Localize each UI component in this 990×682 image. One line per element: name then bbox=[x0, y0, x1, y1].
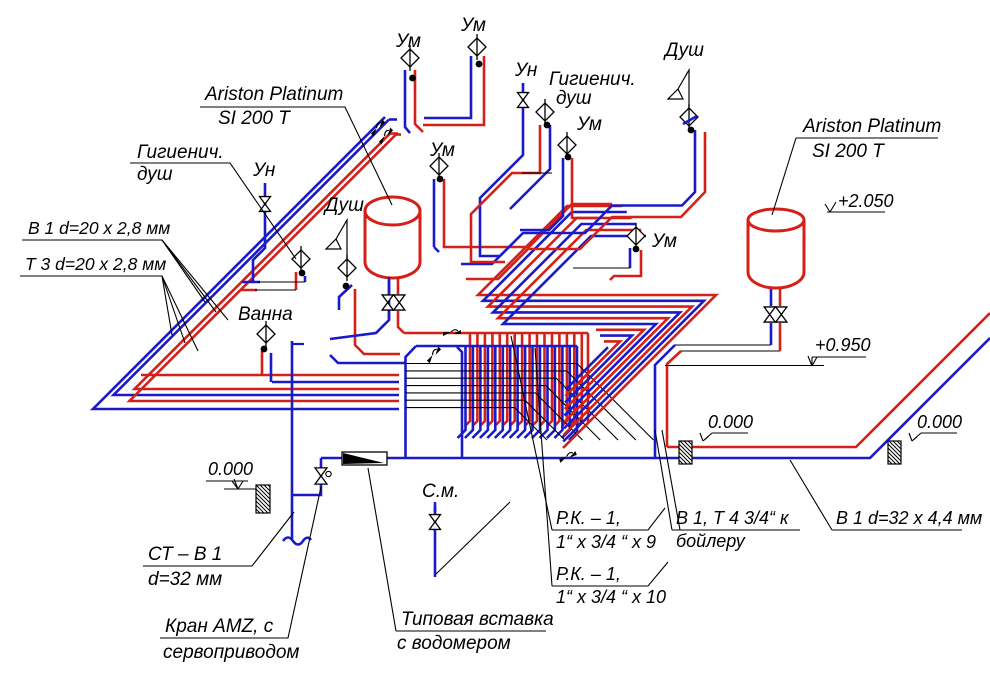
hatch wall right bbox=[888, 441, 901, 464]
boiler 2 double valve bbox=[764, 307, 775, 322]
svg-text:Ум: Ум bbox=[576, 114, 602, 135]
bath Vanna cold drop bbox=[270, 353, 273, 382]
hygienic shower 2 hot bbox=[471, 125, 540, 262]
svg-text:0.000: 0.000 bbox=[208, 459, 253, 479]
bundle cold line B2 bbox=[114, 120, 400, 396]
boiler 1 outlet pipes bbox=[388, 277, 391, 294]
right riser pair to boiler 2 bbox=[655, 345, 675, 458]
left shower hot pipe bbox=[355, 289, 400, 354]
distribution fan Z-runs to fixtures bbox=[478, 206, 716, 448]
urinal Un1 pipe bbox=[253, 183, 265, 283]
svg-text:+0.950: +0.950 bbox=[815, 335, 871, 355]
boiler 2 Ariston cylinder bbox=[748, 209, 804, 288]
zigzag cold connector bbox=[330, 355, 405, 363]
svg-text:d=32 мм: d=32 мм bbox=[148, 569, 222, 590]
svg-text:Гигиенич.: Гигиенич. bbox=[549, 69, 636, 90]
svg-text:СТ – В 1: СТ – В 1 bbox=[148, 544, 222, 565]
washbasin Um2 hot horizontal and riser bbox=[423, 56, 484, 125]
cold manifold riser 2 bbox=[457, 347, 462, 458]
hot manifold header bbox=[404, 332, 588, 335]
svg-text:Душ: Душ bbox=[663, 40, 704, 61]
urinal Un1 valve bbox=[260, 197, 271, 212]
bundle cold line B1 bbox=[93, 117, 399, 409]
floor reference comb lines bbox=[406, 364, 654, 441]
svg-text:В 1 d=20 х 2,8 мм: В 1 d=20 х 2,8 мм bbox=[28, 218, 170, 238]
pipe break on washbasin bundle bbox=[369, 119, 386, 136]
svg-text:Р.К. – 1,: Р.К. – 1, bbox=[556, 508, 621, 528]
svg-text:Ум: Ум bbox=[651, 231, 677, 252]
svg-text:SI 200 T: SI 200 T bbox=[812, 141, 885, 162]
bath Vanna hot drop bbox=[261, 351, 264, 375]
washing machine S.m. valve and pipe bbox=[434, 500, 437, 577]
svg-text:SI 200 T: SI 200 T bbox=[218, 108, 291, 129]
svg-text:Ум: Ум bbox=[460, 15, 486, 36]
washbasin Um center drops bbox=[433, 179, 436, 247]
AMZ valve connection bbox=[292, 458, 321, 495]
svg-text:0.000: 0.000 bbox=[917, 412, 962, 432]
hygienic shower 1 hot pipe bbox=[295, 272, 298, 290]
bath cold horizontal bbox=[272, 381, 399, 384]
pipe break on hot header bbox=[443, 330, 461, 336]
cold manifold drops bbox=[458, 346, 578, 440]
hot manifold drops bbox=[465, 333, 588, 428]
svg-text:с водомером: с водомером bbox=[397, 633, 511, 654]
top shower 2 hot run bbox=[466, 132, 705, 279]
washbasin Um2 cold horizontal and riser bbox=[424, 56, 471, 118]
svg-text:В 1 d=32 х 4,4 мм: В 1 d=32 х 4,4 мм bbox=[836, 508, 982, 528]
bath hot horizontal bbox=[141, 374, 399, 377]
svg-text:+2.050: +2.050 bbox=[838, 191, 894, 211]
svg-text:Ванна: Ванна bbox=[238, 304, 293, 325]
svg-text:В 1, Т 4 3/4“ к: В 1, Т 4 3/4“ к bbox=[676, 508, 790, 528]
main cold water line B1 (blue) bbox=[321, 338, 990, 458]
hatch wall left bbox=[256, 485, 270, 513]
svg-text:Ariston Platinum: Ariston Platinum bbox=[204, 84, 343, 105]
hatch wall mid bbox=[679, 441, 692, 464]
stand pipe ST-B1 bbox=[291, 341, 294, 540]
pipe break on main line bbox=[558, 451, 577, 463]
bundle hot line R1 bbox=[135, 134, 400, 390]
svg-text:Кран AMZ, с: Кран AMZ, с bbox=[165, 616, 274, 637]
svg-text:Т 3 d=20 х 2,8 мм: Т 3 d=20 х 2,8 мм bbox=[25, 254, 166, 274]
boiler1 cold feed from left bbox=[330, 277, 389, 339]
svg-text:Ariston Platinum: Ariston Platinum bbox=[802, 116, 941, 137]
svg-text:Ун: Ун bbox=[514, 60, 538, 81]
svg-text:1“ х 3/4 “ х 10: 1“ х 3/4 “ х 10 bbox=[556, 587, 666, 607]
bundle hot line R2 bbox=[130, 135, 400, 402]
cold manifold riser 1 bbox=[404, 363, 407, 458]
left shower cold stub bbox=[339, 285, 352, 310]
svg-text:Гигиенич.: Гигиенич. bbox=[137, 142, 224, 163]
fixture symbols top row bbox=[401, 49, 419, 67]
svg-text:С.м.: С.м. bbox=[422, 481, 459, 502]
hygienic shower 2 cold bbox=[510, 125, 550, 209]
pipe break on cold riser bbox=[425, 346, 442, 363]
svg-text:Р.К. – 1,: Р.К. – 1, bbox=[556, 564, 621, 584]
svg-text:1“ х 3/4 “ х 9: 1“ х 3/4 “ х 9 bbox=[556, 532, 656, 552]
boiler 1 double valve bbox=[382, 295, 393, 310]
svg-text:Ум: Ум bbox=[395, 31, 421, 52]
svg-text:Типовая вставка: Типовая вставка bbox=[401, 609, 554, 630]
hygienic shower 1 cold stub bbox=[304, 276, 307, 282]
svg-text:Душ: Душ bbox=[323, 195, 364, 216]
svg-text:сервоприводом: сервоприводом bbox=[163, 642, 299, 663]
svg-text:0.000: 0.000 bbox=[708, 412, 753, 432]
cold manifold header bbox=[416, 345, 577, 348]
washbasin Um3 drops bbox=[520, 158, 563, 230]
hot water return line to right (red) bbox=[667, 313, 990, 447]
washbasin Um1 riser pair bbox=[405, 70, 410, 133]
svg-text:Ун: Ун bbox=[252, 160, 276, 181]
svg-text:бойлеру: бойлеру bbox=[676, 531, 746, 551]
svg-text:Ум: Ум bbox=[429, 140, 455, 161]
top shower 2 cold run bbox=[461, 130, 695, 264]
water meter insert bbox=[342, 452, 387, 465]
boiler 1 Ariston cylinder bbox=[365, 197, 420, 278]
washbasin Um8 pipes bbox=[629, 248, 632, 268]
svg-text:душ: душ bbox=[137, 164, 173, 185]
svg-text:душ: душ bbox=[556, 88, 592, 109]
urinal Un2 pipe bbox=[480, 83, 523, 256]
